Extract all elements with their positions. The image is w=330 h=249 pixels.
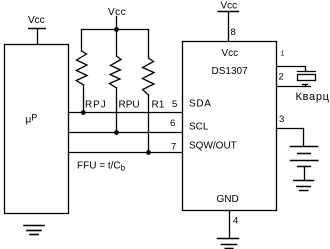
svg-text:GND: GND <box>217 194 239 205</box>
svg-text:6: 6 <box>170 118 175 129</box>
svg-text:5: 5 <box>172 99 177 110</box>
svg-text:Vcc: Vcc <box>108 7 126 18</box>
svg-text:8: 8 <box>231 27 236 38</box>
svg-text:Кварц: Кварц <box>296 91 330 103</box>
svg-text:R1: R1 <box>152 100 165 111</box>
svg-text:Vcc: Vcc <box>28 15 45 26</box>
svg-text:1: 1 <box>281 51 285 58</box>
svg-text:Vcc: Vcc <box>222 48 239 59</box>
svg-text:7: 7 <box>171 142 176 153</box>
svg-text:3: 3 <box>279 114 284 125</box>
svg-text:FFU = t/Cb: FFU = t/Cb <box>77 161 126 173</box>
svg-text:Vcc: Vcc <box>221 1 238 12</box>
svg-text:4: 4 <box>233 216 238 227</box>
svg-text:DS1307: DS1307 <box>212 66 249 77</box>
svg-text:SDA: SDA <box>189 99 212 110</box>
svg-text:SCL: SCL <box>189 122 209 133</box>
svg-text:RPJ: RPJ <box>85 100 107 111</box>
svg-text:RPU: RPU <box>119 100 140 111</box>
svg-text:2: 2 <box>279 72 284 83</box>
svg-text:SQW/OUT: SQW/OUT <box>189 141 237 152</box>
